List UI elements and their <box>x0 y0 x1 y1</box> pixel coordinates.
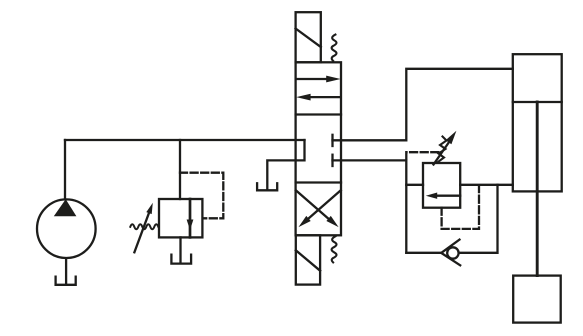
wire relief valve riser <box>179 140 181 199</box>
directional valve U1 centre bypass U-turn <box>267 140 304 190</box>
cylinder A1 body <box>513 54 562 191</box>
wire pump outlet riser <box>64 140 66 199</box>
cylinder A1 piston rod <box>536 102 539 276</box>
spring top of valve <box>332 35 337 61</box>
relief valve V1 body <box>159 199 202 237</box>
solenoid Y2 diagonal <box>296 250 320 270</box>
pump P1 triangle <box>54 199 77 216</box>
solenoid Y1 top box <box>296 12 321 62</box>
relief valve V1 spring <box>130 224 158 229</box>
relief valve V1 adjustment arrowhead <box>146 203 153 214</box>
reducing valve V2 internal flow line <box>437 195 460 197</box>
directional valve U1 box divider lower <box>296 181 341 183</box>
wire B branch into reducing valve <box>406 184 423 186</box>
reducing valve V2 spring zigzag <box>438 137 447 163</box>
reducing valve V2 downstream pilot dashed <box>442 185 479 229</box>
ground tank symbol at valve drain <box>257 183 277 190</box>
wire port B <box>333 160 407 252</box>
relief valve V1 pilot dashed line <box>180 173 223 219</box>
reducing valve V2 arrowhead left <box>426 193 437 199</box>
directional valve U1 position-a right arrow <box>297 78 329 80</box>
wire reducing valve outlet <box>460 184 513 186</box>
relief valve V1 arrowhead down <box>187 220 194 231</box>
directional valve U1 box divider upper <box>296 113 341 115</box>
reducing valve V2 pilot dashed to spring <box>406 152 440 159</box>
directional valve U1 blocked port A bar <box>331 135 333 146</box>
wire pump suction <box>65 259 67 284</box>
solenoid Y2 bottom box <box>296 235 320 284</box>
ground tank symbol under relief valve <box>171 255 191 264</box>
directional valve U1 position-b cross arrow 2 <box>296 190 329 219</box>
directional valve U1 position-b cross arrow 1 <box>308 190 341 219</box>
wire port A to cylinder cap end <box>333 69 513 141</box>
wire P supply line <box>65 139 305 141</box>
directional valve U1 body <box>296 62 341 235</box>
ground tank symbol under pump <box>56 277 76 285</box>
solenoid Y1 diagonal <box>296 29 321 48</box>
wire check valve bypass left segment <box>406 252 441 254</box>
reducing valve V2 adjustment arrow shaft <box>434 143 449 165</box>
directional valve U1 blocked port B bar <box>331 155 333 166</box>
relief valve V1 adjustment arrow shaft <box>134 212 149 253</box>
check valve C1 ball <box>447 247 458 258</box>
wire check valve bypass right segment <box>459 185 498 253</box>
load mass box <box>513 276 561 323</box>
spring bottom of valve <box>332 236 337 262</box>
relief valve V1 internal flow line <box>189 199 192 237</box>
cylinder A1 piston <box>513 101 562 103</box>
wire relief valve drain <box>179 237 181 263</box>
check valve C1 seat <box>441 240 460 266</box>
reducing valve V2 adjustment arrowhead <box>446 131 457 145</box>
directional valve U1 position-a left arrow <box>310 96 341 98</box>
pump P1 circle <box>37 199 96 258</box>
reducing valve V2 body <box>423 163 460 208</box>
